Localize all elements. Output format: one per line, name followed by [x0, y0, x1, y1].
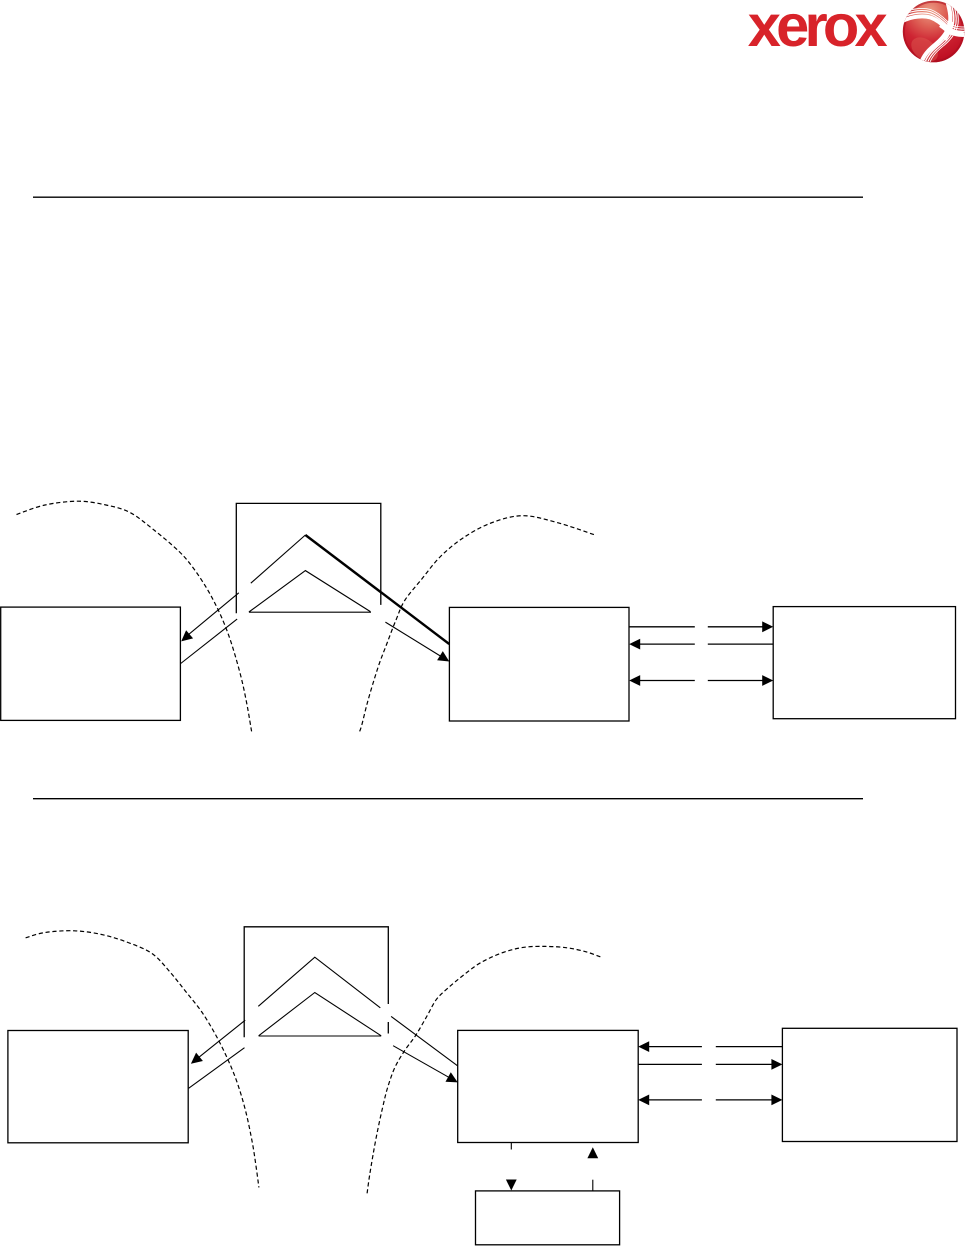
D1 right dashed coverage arc	[359, 516, 594, 733]
D1 second line to left box	[181, 619, 237, 663]
D2 downlink arrow to left box	[194, 1020, 245, 1061]
horizontal rule 2	[33, 798, 863, 800]
D2 upper line to middle box	[391, 1016, 457, 1065]
ribbon A solid stroke	[903, 16, 965, 35]
horizontal rule 1	[33, 196, 863, 198]
D2 up arrow from bottom box	[587, 1147, 598, 1158]
D1 downlink arrow to left box	[185, 593, 239, 638]
D2 link row 3 (double arrow)	[638, 1095, 649, 1106]
ribbon A stripes	[903, 13, 965, 32]
D1 thick downlink line to middle box	[305, 535, 449, 644]
D2 downlink arrow to middle box	[393, 1046, 453, 1080]
D2 middle box	[458, 1030, 639, 1142]
D1 link row 3 (double arrow)	[629, 675, 640, 686]
D2 left box	[8, 1031, 188, 1143]
xerox sphere logo	[903, 1, 965, 67]
D1 link row 2 (left arrow)	[629, 639, 640, 650]
D2 satellite outer peak	[258, 957, 380, 1008]
D2 second line to left box	[189, 1048, 245, 1089]
D2 right dashed coverage arc	[367, 946, 601, 1193]
D1 satellite box (open bottom)	[236, 503, 380, 613]
X crossing thick arms	[941, 25, 964, 35]
D2 satellite inner triangle	[259, 993, 382, 1037]
svg-text:xerox: xerox	[748, 0, 888, 59]
D1 left box (ground station A)	[1, 607, 181, 720]
D1 middle box (receive station)	[449, 607, 629, 721]
ribbon B solid stroke	[922, 1, 950, 61]
D1 satellite inner triangle	[249, 571, 371, 613]
D1 link row 1 (right arrow)	[629, 626, 695, 628]
ribbon B stripes	[926, 1, 954, 61]
D2 satellite box (open bottom)	[244, 927, 388, 1038]
D2 link row 1 (left arrow)	[638, 1041, 649, 1052]
D1 thin downlink arrow to middle box	[385, 622, 445, 659]
D1 right box (terminal)	[773, 607, 955, 719]
D2 right box	[782, 1028, 957, 1141]
D1 left dashed coverage arc	[17, 501, 252, 731]
D2 down arrow to bottom box	[510, 1143, 512, 1150]
D1 satellite outer peak left line	[251, 535, 306, 583]
D2 left dashed coverage arc	[26, 931, 259, 1188]
D2 link row 2 (right arrow)	[638, 1063, 702, 1065]
D2 bottom box	[476, 1191, 620, 1245]
